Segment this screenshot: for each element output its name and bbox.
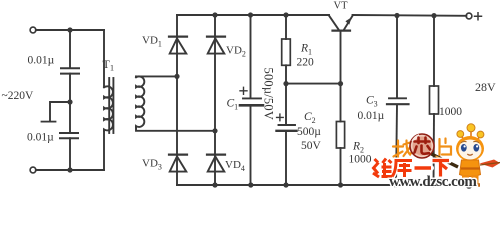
- wire cap chain upper: [69, 30, 71, 68]
- resistor load 1000 body: [430, 86, 439, 114]
- resistor R1 body: [282, 39, 291, 65]
- svg-text:50V: 50V: [301, 140, 322, 152]
- junction dot input cap top: [67, 27, 72, 32]
- svg-text:500µ/50V: 500µ/50V: [262, 68, 276, 121]
- svg-text:VT: VT: [334, 1, 349, 12]
- junction dot bottom C1: [248, 182, 253, 187]
- junction dot base link left: [283, 81, 288, 86]
- resistor load 1000 wire lower: [433, 114, 436, 185]
- watermark mascot antenna balls: [457, 131, 464, 138]
- wire top-left rail: [36, 29, 104, 31]
- wire bottom-left rail: [36, 169, 104, 171]
- junction dot top load resistor: [431, 13, 436, 18]
- wire primary top lead: [103, 30, 105, 87]
- transistor VT base lead: [340, 32, 342, 84]
- watermark logo group: [373, 124, 500, 190]
- watermark mascot brows: [461, 141, 479, 142]
- svg-text:0.01µ: 0.01µ: [27, 132, 54, 144]
- resistor R2 wire upper: [340, 84, 342, 122]
- wire bridge left branch: [176, 15, 178, 185]
- diode VD4: [207, 154, 225, 156]
- watermark mascot legs: [462, 175, 469, 186]
- transistor VT emitter arrow: [345, 17, 351, 24]
- label + output: [475, 13, 482, 20]
- svg-text:0.01µ: 0.01µ: [358, 110, 385, 122]
- svg-text:500µ: 500µ: [297, 126, 321, 138]
- watermark magnifier ring: [410, 134, 434, 158]
- watermark magnifier highlight: [413, 136, 420, 142]
- junction dot bottom R2: [338, 182, 343, 187]
- capacitor C1 branch wire lower: [250, 107, 252, 185]
- watermark char 库 red: [392, 161, 412, 178]
- transistor VT collector lead: [329, 16, 339, 30]
- watermark mascot eyes: [461, 144, 467, 152]
- watermark char 找 outline: [393, 141, 413, 158]
- junction dot top C1: [248, 12, 253, 17]
- capacitor C2 plates: [279, 124, 296, 126]
- wire 220V lead: [50, 102, 70, 120]
- watermark char 片 outline: [440, 139, 452, 156]
- transformer core: [108, 78, 110, 133]
- transformer T1 primary winding: [104, 86, 113, 131]
- watermark mascot body: [460, 160, 481, 177]
- junction dot top C3: [394, 13, 399, 18]
- capacitor C3 wire lower: [396, 105, 397, 185]
- junction dot bottom load resistor: [431, 182, 436, 187]
- junction dot secondary-bridge right: [212, 128, 217, 133]
- resistor R2 wire lower: [340, 148, 342, 185]
- resistor R2 body: [336, 122, 344, 149]
- capacitor C3 plates: [389, 97, 406, 99]
- transistor VT base bar: [333, 30, 351, 32]
- plus sign C1: [240, 87, 247, 94]
- junction dot bottom C2: [283, 182, 288, 187]
- wire bottom rail: [177, 184, 466, 186]
- wire base link: [286, 83, 341, 85]
- wire cap chain bottom: [69, 138, 71, 170]
- svg-text:C2: C2: [304, 111, 316, 125]
- capacitor C2 wire upper: [285, 84, 287, 125]
- watermark char 维 red: [373, 159, 392, 178]
- watermark red text white casing: [373, 159, 449, 178]
- watermark char 下 red: [433, 161, 450, 177]
- junction dot top R1: [283, 12, 288, 17]
- junction dot input cap bottom: [67, 167, 72, 172]
- capacitor C2 wire lower: [285, 132, 287, 185]
- junction dot 220V tap: [67, 99, 72, 104]
- junction dot secondary-bridge left: [174, 74, 179, 79]
- diode VD3: [169, 154, 187, 156]
- wire secondary top lead: [135, 75, 137, 78]
- watermark mascot belt: [461, 167, 480, 169]
- svg-text:28V: 28V: [475, 80, 496, 94]
- terminal: output bottom: [466, 182, 472, 188]
- transformer secondary winding: [136, 76, 144, 127]
- resistor load 1000 wire upper: [433, 16, 435, 86]
- svg-text:0.01µ: 0.01µ: [28, 55, 55, 67]
- watermark char 一 red: [415, 166, 432, 170]
- watermark mascot face: [459, 140, 482, 160]
- diode VD2: [207, 35, 225, 37]
- watermark mascot head: [456, 136, 484, 161]
- wire top rail left of VT: [177, 14, 329, 16]
- wire top rail right of VT: [353, 14, 467, 17]
- svg-text:R2: R2: [352, 141, 364, 155]
- watermark mascot right arm flag: [480, 160, 500, 168]
- junction dot bottom bridge right: [212, 182, 217, 187]
- resistor R1 wire upper: [285, 15, 287, 39]
- junction dot bottom C3: [393, 182, 398, 187]
- svg-text:C1: C1: [227, 98, 239, 112]
- wire bridge right branch: [214, 15, 216, 185]
- terminal: AC input top: [30, 27, 36, 33]
- watermark mascot antenna stems: [462, 132, 480, 143]
- svg-text:1000: 1000: [439, 106, 462, 118]
- watermark magnifier inner blob: [413, 137, 432, 156]
- wire cap chain middle: [69, 74, 71, 133]
- svg-text:VD1: VD1: [142, 35, 162, 49]
- svg-text:www.dzsc.com: www.dzsc.com: [389, 174, 477, 189]
- 220V lead end bar: [42, 121, 56, 123]
- capacitor C1 branch wire upper: [250, 15, 252, 98]
- watermark magnifier handle: [432, 154, 459, 167]
- transistor VT emitter lead: [344, 16, 353, 30]
- terminal: AC input bottom: [30, 167, 36, 173]
- diode VD1: [169, 35, 187, 37]
- wire secondary bottom lead: [136, 127, 215, 131]
- svg-text:T1: T1: [103, 57, 115, 73]
- svg-text:R1: R1: [300, 43, 312, 57]
- svg-text:VD4: VD4: [225, 159, 245, 173]
- capacitor C3 wire upper: [396, 16, 398, 98]
- svg-text:~220V: ~220V: [2, 90, 34, 102]
- capacitor 0.01µ upper plates: [61, 67, 79, 69]
- svg-text:1000: 1000: [349, 154, 372, 166]
- svg-text:220: 220: [297, 57, 315, 69]
- watermark char 芯 inside magnifier: [415, 138, 431, 154]
- terminal: output +: [466, 13, 472, 19]
- svg-text:C3: C3: [366, 95, 378, 109]
- plus sign C2: [277, 114, 284, 121]
- svg-text:VD2: VD2: [226, 45, 246, 59]
- capacitor C1 plates: [243, 97, 261, 99]
- capacitor 0.01µ lower plates: [60, 132, 78, 134]
- wire primary bottom lead: [103, 130, 105, 170]
- junction dot base link right: [338, 81, 343, 86]
- resistor R1 wire lower: [285, 65, 287, 83]
- junction dot top bridge right: [212, 12, 217, 17]
- watermark mascot mouth: [467, 154, 472, 155]
- svg-text:VD3: VD3: [142, 158, 162, 172]
